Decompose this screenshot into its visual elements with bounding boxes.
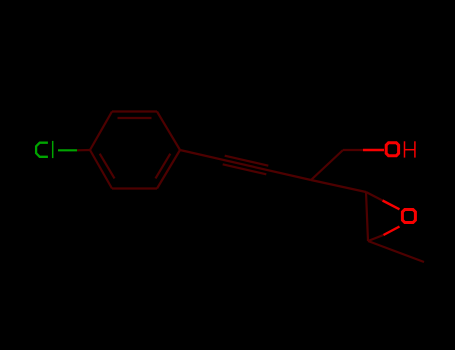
bond CH2-OH carbon half [343, 149, 363, 151]
bond Cl-C1 green half [58, 149, 77, 151]
ring edge C2-C3 top [112, 110, 157, 112]
aromatic inner line C2=C3 top [118, 117, 152, 119]
bond C7-CH2 [311, 150, 343, 180]
alkyne chain C4-C7 main line [180, 150, 311, 180]
epoxide bond C9-O carbon half [368, 235, 384, 241]
epoxide bond C9-O oxygen half red [384, 227, 400, 236]
ring edge C6-C1 [90, 150, 112, 189]
ring edge C3-C4 [157, 112, 180, 151]
benzene ring C1-C6 [90, 112, 180, 189]
hydroxyl label OH [386, 141, 415, 157]
aromatic inner line C4=C5 lower right [156, 154, 171, 179]
bond CH2-OH oxygen half red [363, 149, 384, 151]
O glyph octagon [386, 143, 398, 156]
epoxide bond C8-O oxygen half red [383, 201, 400, 210]
aromatic inner line C6=C1 lower left [100, 154, 115, 179]
epoxide bond C8-C9 [366, 192, 368, 241]
triple bond companion line upper [225, 156, 269, 166]
ring edge C5-C6 bottom [112, 187, 157, 189]
chlorine label Cl [36, 141, 53, 158]
epoxide bond C8-O carbon half [366, 192, 383, 201]
triple bond companion line lower [223, 164, 267, 174]
bond C7-epoxide C8 [311, 180, 366, 192]
H glyph [404, 141, 406, 157]
bond C9-methyl [368, 241, 424, 262]
ring edge C1-C2 [90, 112, 112, 151]
epoxide oxygen label O [402, 210, 415, 223]
ring edge C4-C5 [157, 150, 180, 189]
bond Cl-C1 carbon half [77, 149, 90, 152]
